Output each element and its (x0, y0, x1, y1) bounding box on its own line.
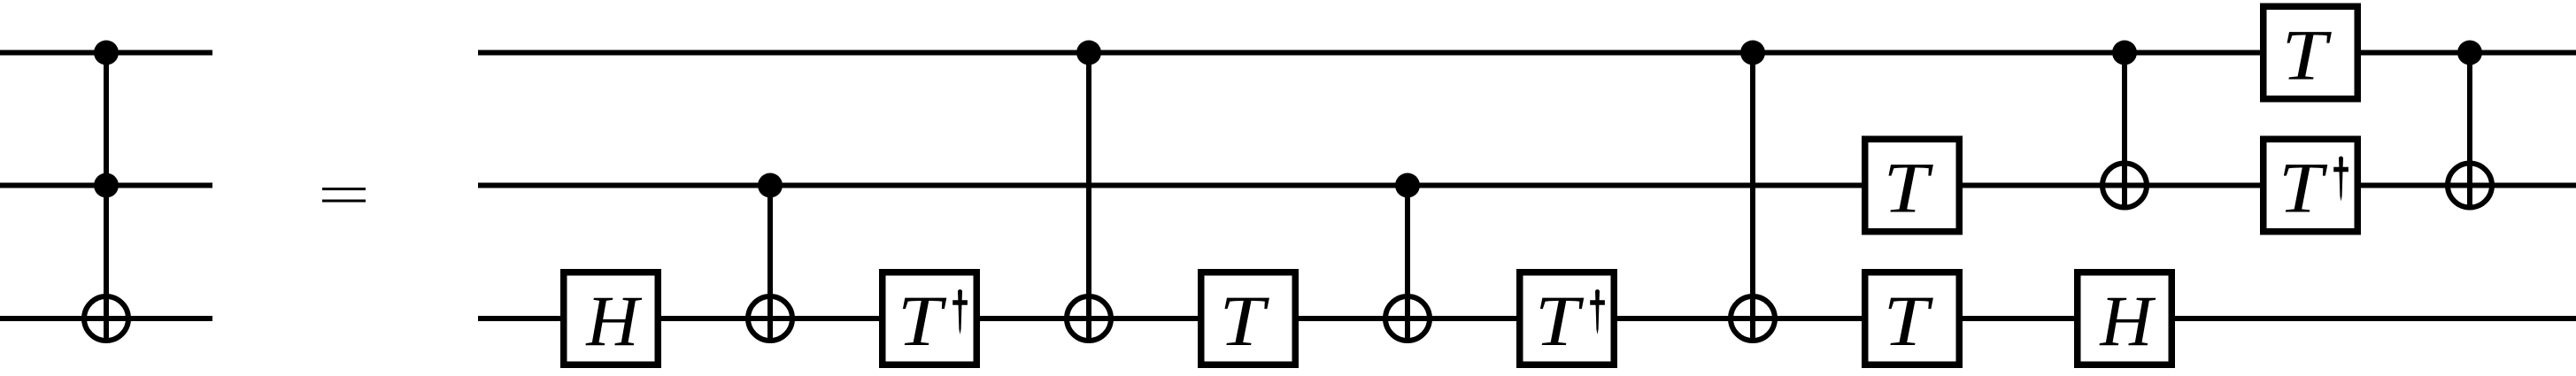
svg-text:H: H (2099, 280, 2156, 361)
svg-text:T: T (1884, 148, 1934, 228)
svg-text:T: T (1884, 280, 1934, 361)
svg-text:T: T (2282, 15, 2333, 96)
svg-text:T: T (898, 280, 947, 361)
svg-text:T: T (1535, 280, 1585, 361)
svg-text:T: T (1220, 280, 1270, 361)
svg-text:H: H (585, 280, 642, 361)
svg-text:T: T (2279, 148, 2328, 228)
